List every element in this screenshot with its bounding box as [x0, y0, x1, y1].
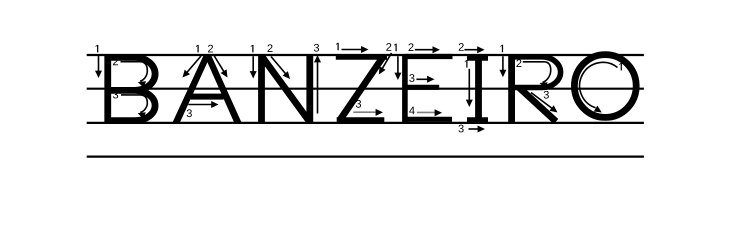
stroke arrow 2 of R [523, 62, 551, 89]
letter B [108, 54, 155, 124]
label 1 of I [465, 60, 468, 68]
label 1 of N [251, 45, 254, 53]
label 2 of R [516, 59, 521, 67]
label 3 of Z [356, 100, 361, 108]
stroke arrow 4 of E [417, 109, 442, 116]
label 3 of N [314, 44, 319, 52]
stroke arrow 2 of B [121, 62, 148, 88]
stroke arrow 3 of N [314, 55, 321, 114]
label 1 of B [96, 45, 99, 53]
label 3 of E [409, 74, 414, 82]
label 3 of A [187, 109, 192, 117]
stroke arrow 1 of O [580, 62, 618, 112]
guide line cap [87, 54, 644, 56]
stroke arrow 1 of Z [342, 46, 369, 53]
label 4 of E [409, 107, 415, 115]
label 2 of B [113, 58, 118, 66]
label 2 of N [267, 44, 272, 52]
label 3 of B [113, 91, 118, 99]
stroke arrow 2 of E [415, 46, 440, 53]
stroke arrow 1 of B [95, 56, 102, 78]
letter R [512, 54, 561, 124]
label 2 of E [408, 43, 413, 51]
guide line midline [87, 88, 644, 90]
label 1 of O [619, 63, 622, 71]
label 2 of A [208, 45, 213, 53]
stroke arrow 2 of I [464, 46, 484, 53]
letter A [172, 54, 242, 124]
stroke arrow 1 of N [250, 56, 257, 78]
stroke arrow 3 of Z [353, 109, 383, 116]
letter N [262, 54, 310, 124]
stroke arrow 3 of A [188, 101, 218, 108]
stroke arrow 1 of I [466, 69, 473, 107]
stroke arrow 2 of A [214, 56, 228, 78]
label 3 of R [544, 91, 549, 99]
guide line baseline [87, 122, 644, 124]
stroke arrow 2 of N [271, 57, 290, 80]
guide line bottom [87, 156, 644, 158]
stroke arrow 1 of R [499, 56, 506, 77]
stroke arrow 3 of B [121, 95, 147, 119]
letter E [405, 54, 453, 124]
letter O [574, 55, 636, 118]
label 3 of I [458, 125, 463, 133]
stroke arrow 3 of I [469, 126, 486, 133]
stroke arrow 1 of A [183, 56, 202, 78]
stroke arrow 1 of E [394, 56, 401, 80]
stroke arrow 3 of E [416, 76, 434, 83]
label 2 of I [459, 43, 464, 51]
letter I [467, 54, 488, 124]
crossbar of A [191, 94, 224, 100]
label 1 of A [196, 45, 199, 53]
label 2 of Z [386, 43, 391, 51]
label 1 of E [394, 44, 397, 52]
stroke arrow 3 of R [531, 93, 558, 113]
stroke arrow 2 of Z [379, 53, 392, 75]
letter Z [336, 57, 387, 121]
label 1 of Z [336, 43, 339, 51]
label 1 of R [500, 45, 503, 53]
